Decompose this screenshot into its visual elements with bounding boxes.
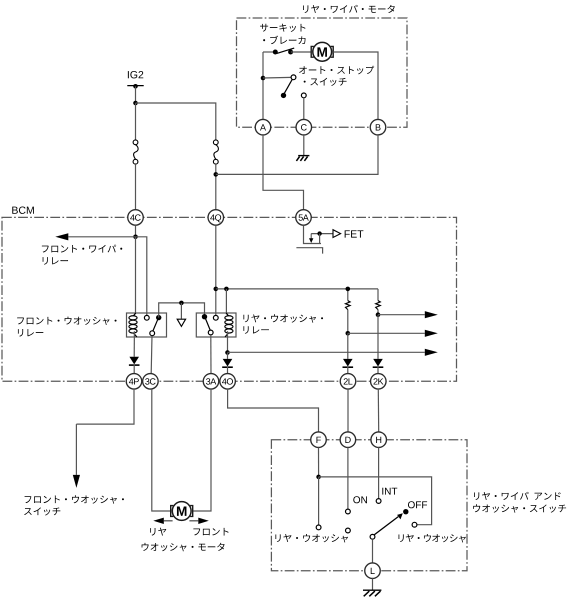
label ON	[353, 496, 367, 503]
rear wiper and washer switch box (dash-dot)	[271, 440, 467, 571]
IG2 terminal bar	[127, 85, 143, 87]
wire breaker to motor	[291, 51, 311, 53]
ground (rear wiper motor)	[296, 156, 309, 161]
wire diode to 2K	[377, 367, 379, 374]
junction F	[316, 475, 321, 480]
wire to resistor R2	[377, 289, 379, 301]
wire IG2 to 4C branch	[135, 103, 137, 140]
wire 2L to pin D	[347, 389, 349, 432]
wire 4C into BCM	[135, 225, 137, 237]
front washer relay lower contact	[150, 331, 155, 336]
wire F to rear washer contact	[318, 477, 320, 525]
wire diode to 4O	[227, 367, 229, 374]
connector pin 3A	[203, 374, 219, 390]
front washer relay pivot contact	[144, 315, 149, 320]
rear wiper motor assembly box (dash-dot)	[237, 18, 408, 127]
label front wiper relay line1	[42, 245, 122, 253]
label front washer switch line1	[25, 495, 124, 503]
wire to resistors	[216, 288, 378, 290]
arrow rear direction	[153, 518, 172, 524]
label rear washer relay line2	[243, 326, 268, 334]
rear wiper motor M	[311, 42, 333, 61]
label rear wiper and washer switch line2	[473, 504, 566, 512]
wire F to OFF contact	[319, 477, 432, 525]
wire F down	[318, 447, 320, 476]
label auto stop switch line1	[299, 66, 374, 75]
FET channel bracket	[296, 248, 322, 254]
label BCM	[12, 206, 34, 213]
junction IG2 split	[133, 101, 138, 106]
wire 2K to pin H	[377, 389, 379, 432]
label front wiper relay line2	[43, 257, 68, 265]
connector pin F	[311, 432, 327, 448]
connector pin 4Q	[208, 210, 224, 226]
label rear washer relay line1	[243, 314, 323, 322]
ON contact (upper)	[346, 509, 351, 514]
OFF fixed contact	[412, 522, 417, 527]
wire front relay to rear relay contacts	[159, 303, 205, 318]
label washer motor	[142, 543, 225, 552]
wire node A branch down	[262, 52, 264, 119]
wire 3A to washer motor	[193, 389, 211, 511]
connector pin 4C	[128, 210, 144, 226]
auto-stop switch pivot	[291, 75, 296, 80]
wire to auto-stop pivot	[263, 76, 291, 79]
wire relay contact to 3A	[210, 335, 212, 373]
wire R1 down	[347, 310, 349, 334]
circuit breaker contact (right)	[288, 50, 293, 55]
label INT	[382, 488, 397, 495]
label front washer switch line2	[24, 507, 60, 515]
wire 4C to relay contact pivot	[136, 237, 147, 316]
resistor R2	[376, 301, 381, 310]
wire R2 to diode	[377, 315, 379, 359]
label front washer relay line1	[17, 317, 116, 325]
wire junction to pin B	[216, 135, 378, 174]
inline connector (4C branch)	[133, 140, 138, 164]
resistor R1	[346, 301, 351, 310]
connector pin D	[340, 432, 356, 448]
diode (above 2K)	[373, 359, 384, 367]
wire coil down	[227, 331, 229, 352]
connector pin L	[365, 563, 381, 579]
net label IG2	[128, 71, 143, 78]
arrow to front wiper relay	[55, 233, 135, 240]
diode (front washer relay)	[129, 357, 140, 365]
front washer relay blade	[153, 320, 158, 331]
front washer relay coil	[129, 313, 137, 337]
IG2 terminal dot	[133, 84, 138, 89]
junction R2 output	[376, 312, 381, 317]
wire R1 to diode	[347, 333, 349, 359]
label rear washer (right)	[398, 534, 465, 542]
junction 4C split	[133, 235, 138, 240]
FET gate arrow	[309, 234, 313, 243]
front washer relay fixed contact	[156, 315, 161, 320]
circuit breaker blade	[277, 48, 294, 53]
rear washer contact (left)	[316, 525, 321, 530]
connector pin A	[255, 119, 271, 135]
wire to pin 4C	[135, 164, 137, 209]
wire 4P to front washer switch	[76, 389, 134, 424]
label OFF	[408, 501, 427, 508]
wire motor to node B	[333, 52, 378, 119]
auto-stop switch blade	[284, 79, 292, 93]
rear washer relay box	[196, 313, 236, 337]
INT contact	[376, 499, 381, 504]
connector pin H	[371, 432, 387, 448]
junction 4Q / motor-B	[214, 172, 219, 177]
wire IG2 down	[135, 86, 137, 103]
junction inter-relay	[179, 301, 184, 306]
wire contact to node C	[303, 98, 305, 120]
label front (furonto)	[193, 528, 228, 536]
wire 3C to washer motor	[152, 389, 170, 511]
wire pivot to pin L	[372, 539, 374, 563]
wire D down	[347, 447, 349, 509]
wire 4C to relay coil	[135, 237, 137, 314]
rear washer relay fixed contact	[202, 314, 207, 319]
rear wiper switch common (OFF position)	[403, 509, 408, 514]
wire FET gate to output	[311, 233, 332, 235]
label front washer relay line2	[18, 329, 43, 337]
junction R1 output	[346, 331, 351, 336]
connector pin 4P	[126, 374, 142, 390]
wire to resistor R1	[347, 289, 349, 301]
arrow output (rear washer relay coil)	[228, 349, 438, 356]
wire diode to 2L	[347, 367, 349, 374]
ON contact (lower)	[346, 528, 351, 533]
wire to diode	[227, 353, 229, 359]
label FET	[345, 230, 364, 237]
label circuit breaker line2 (bureka)	[263, 36, 305, 44]
wire 5A to FET drain bar	[304, 225, 322, 243]
diode (rear washer relay)	[222, 359, 233, 367]
ground (switch)	[363, 590, 381, 596]
wire R2 down	[377, 310, 379, 315]
wire pin A to pin 5A	[263, 135, 304, 209]
arrow to front washer switch	[73, 424, 80, 488]
label rear wiper and washer switch line1	[474, 492, 561, 500]
washer motor M	[171, 502, 193, 521]
rear washer relay lower contact	[208, 330, 213, 335]
wire FET junction down	[319, 234, 321, 244]
arrow output (R1)	[348, 330, 438, 337]
circuit breaker contact (left)	[273, 50, 278, 55]
connector pin 3C	[143, 374, 159, 390]
junction FET	[317, 231, 321, 235]
wire to pin 4Q	[215, 164, 217, 209]
wire 4Q to rear relay pivot	[215, 225, 217, 315]
connector pin B	[370, 119, 386, 135]
rear washer relay coil	[225, 313, 233, 337]
label rear (riya)	[150, 528, 166, 536]
junction coil / output arrow	[225, 350, 230, 355]
front washer relay box	[127, 313, 167, 337]
arrow front direction	[189, 518, 208, 524]
label rear washer (left)	[275, 534, 348, 542]
junction R1 feed	[346, 287, 351, 292]
label rear wiper motor (riya waipa mota)	[303, 5, 395, 13]
auto-stop switch moving contact	[281, 93, 286, 98]
stub to open diode symbol	[180, 303, 182, 319]
rear washer relay pivot contact	[213, 315, 218, 320]
auto-stop switch fixed contact (to C)	[301, 93, 306, 98]
rear washer relay blade	[206, 319, 211, 330]
connector pin C	[296, 119, 312, 135]
wire coil to diode	[133, 331, 135, 357]
connector pin 2K	[371, 374, 387, 390]
wire to rear relay coil	[225, 289, 227, 315]
wire diode to 4P	[133, 365, 135, 374]
diode (above 2L)	[343, 359, 354, 367]
label circuit breaker line1 (sakitto)	[260, 24, 305, 32]
rear wiper switch pivot	[370, 534, 375, 539]
wire L to ground	[372, 578, 374, 590]
FET output triangle	[333, 230, 341, 238]
junction coil branch	[224, 287, 229, 292]
label auto stop switch line2	[304, 78, 347, 86]
rear wiper switch blade (points to OFF)	[374, 513, 403, 535]
wire H down	[378, 447, 380, 498]
BCM box (dash-dot)	[2, 217, 457, 381]
wire C to ground	[303, 135, 305, 155]
wire node A to circuit breaker	[263, 51, 275, 53]
arrow output (R2)	[378, 311, 438, 318]
junction on A branch	[261, 76, 266, 81]
wire IG2 to 4Q branch	[136, 103, 216, 140]
connector pin 2L	[340, 374, 356, 390]
wire 4O to pin F	[228, 389, 319, 432]
junction 4Q resistor feed	[214, 287, 219, 292]
connector pin 5A	[296, 210, 312, 226]
open triangle (diode symbol)	[177, 319, 185, 326]
connector pin 4O	[220, 374, 236, 390]
inline connector (4Q branch)	[213, 140, 218, 164]
wire relay contact to 3C	[150, 336, 153, 374]
